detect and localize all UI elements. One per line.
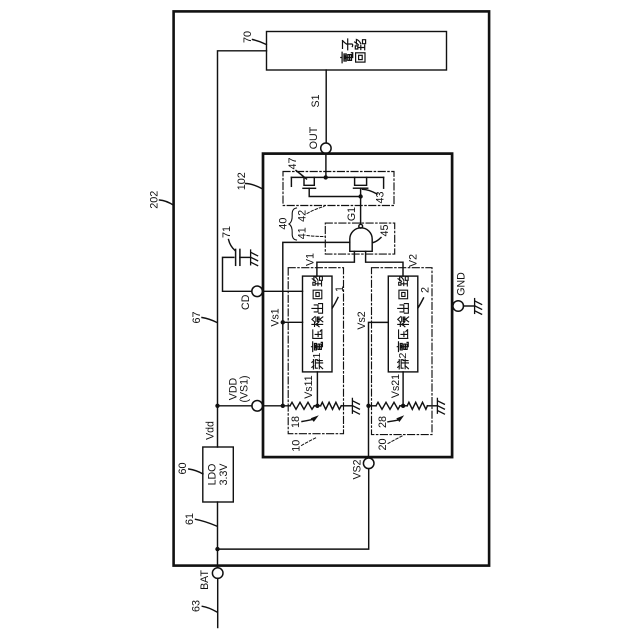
node on rail 67 at VDD	[215, 404, 219, 408]
wire: divider 2 to ground	[427, 405, 437, 407]
svg-text:45: 45	[379, 224, 391, 236]
wire S1: box70 to OUT pin	[325, 70, 327, 143]
pin BAT circle	[212, 568, 223, 579]
pin VDD circle	[252, 401, 263, 412]
pin OUT circle	[321, 143, 331, 153]
node: divider1 left	[281, 404, 285, 408]
label 102	[236, 172, 262, 190]
svg-text:V2: V2	[408, 254, 420, 267]
ground (divider 1)	[352, 398, 359, 414]
node: BAT branch	[215, 547, 219, 551]
wire: between resistors	[400, 405, 407, 407]
node Vs11 tap	[315, 404, 319, 408]
label 電子回路 in box 70	[341, 39, 366, 63]
svg-text:OUT: OUT	[308, 126, 320, 149]
label VDD (VS1)	[228, 375, 251, 402]
pin GND circle	[453, 301, 464, 312]
wire: CD pin into detection circuit 1	[262, 290, 302, 292]
transistor 47	[291, 177, 360, 196]
resistor divider 18 upper	[290, 402, 314, 409]
wire: transistor common rail	[291, 176, 383, 178]
label 61	[184, 513, 217, 526]
wire: CD branch to NAND side input	[283, 242, 350, 405]
dash-dot box 42 (output transistor pair)	[283, 172, 394, 206]
label 71	[221, 226, 235, 251]
ground (divider 2)	[437, 398, 444, 414]
svg-text:BAT: BAT	[199, 570, 211, 590]
pin VS2 circle	[363, 458, 374, 469]
svg-text:LDO: LDO	[207, 464, 219, 486]
label 10	[291, 437, 318, 451]
label 2	[418, 287, 432, 308]
wire: GND pin to ground	[464, 305, 475, 307]
wire 63: battery lead	[217, 578, 219, 627]
wire: Vs21 tap to box 2	[402, 372, 404, 406]
pin CD circle	[252, 286, 263, 297]
wire: Vs1 to box 1	[283, 321, 303, 323]
svg-text:V1: V1	[305, 253, 317, 266]
box 1: first voltage detection circuit	[303, 276, 333, 372]
wire: VDD pin to divider 1	[263, 405, 291, 407]
wire 67: box70 to LDO rail	[218, 51, 267, 447]
svg-text:67: 67	[191, 311, 203, 323]
capacitor 71	[236, 249, 240, 265]
label 42	[297, 207, 324, 222]
svg-text:202: 202	[149, 191, 161, 209]
svg-text:18: 18	[290, 416, 302, 428]
label 45	[373, 224, 391, 242]
label 41	[297, 227, 325, 239]
svg-text:40: 40	[278, 218, 290, 230]
svg-text:(VS1): (VS1)	[238, 375, 250, 402]
svg-text:S1: S1	[310, 94, 322, 107]
wire: VS2 pin down to BAT rail	[218, 469, 369, 549]
svg-text:Vs21: Vs21	[390, 374, 402, 398]
svg-text:Vs1: Vs1	[270, 308, 282, 326]
ground (capacitor 71)	[251, 250, 258, 266]
label 28 with arrow	[377, 415, 404, 428]
box 70 electronic circuit	[267, 32, 447, 71]
box 2: second voltage detection circuit	[388, 276, 418, 372]
IC box 102	[263, 154, 452, 458]
node: gate junction G1	[358, 194, 362, 198]
svg-text:102: 102	[236, 172, 248, 190]
wire: CD pin to capacitor 71	[223, 257, 252, 291]
svg-text:2: 2	[420, 287, 432, 293]
svg-text:2: 2	[397, 353, 409, 359]
wire 61: LDO to BAT pin	[217, 502, 219, 568]
svg-text:10: 10	[291, 440, 303, 452]
svg-text:GND: GND	[456, 272, 468, 296]
wire: to divider 2	[369, 405, 377, 407]
wire: Vs2 from riser to box 2	[369, 322, 389, 458]
label 47	[287, 157, 307, 179]
dash-dot box 20 (second divider block)	[372, 268, 433, 435]
label 18 with arrow	[290, 415, 319, 428]
brace 40	[289, 208, 297, 240]
NAND gate 45 output bubble	[359, 224, 363, 228]
label LDO 3.3V	[207, 463, 231, 486]
node Vs21 tap	[401, 404, 405, 408]
node Vs1	[281, 320, 285, 324]
svg-text:41: 41	[297, 227, 309, 239]
label 67	[191, 311, 217, 323]
label 43	[363, 189, 387, 203]
svg-text:3.3V: 3.3V	[218, 463, 230, 486]
transistor 43	[354, 177, 384, 196]
svg-text:60: 60	[177, 462, 189, 474]
svg-text:Vdd: Vdd	[205, 421, 217, 440]
dash-dot box 10 (first divider block)	[288, 268, 343, 434]
label 1	[332, 286, 346, 308]
label 202	[149, 191, 174, 209]
svg-text:Vs11: Vs11	[303, 375, 315, 398]
svg-text:CD: CD	[240, 294, 252, 310]
wire: NAND input V1	[317, 251, 355, 276]
node: divider2 left	[366, 404, 370, 408]
label 63	[191, 600, 217, 612]
resistor divider 28 upper	[376, 402, 400, 409]
wire OUT pin into chip	[325, 153, 327, 177]
svg-text:63: 63	[191, 600, 203, 612]
svg-text:71: 71	[221, 226, 233, 238]
label 第2電圧検出回路	[397, 276, 409, 369]
node: drain rail junction	[324, 175, 328, 179]
wire: NAND input V2	[366, 251, 403, 276]
dash-dot box 41 (NAND logic)	[325, 223, 394, 254]
svg-text:42: 42	[297, 210, 309, 222]
wire: Vs11 tap to box 1	[316, 372, 318, 406]
wire: divider 1 to ground	[341, 405, 352, 407]
NAND gate 45 body	[350, 228, 372, 252]
svg-text:G1: G1	[346, 207, 358, 221]
svg-text:61: 61	[184, 513, 196, 525]
svg-text:20: 20	[377, 438, 389, 450]
svg-text:Vs2: Vs2	[356, 311, 368, 329]
LDO regulator box 60	[203, 447, 234, 502]
svg-text:28: 28	[377, 416, 389, 428]
svg-text:70: 70	[242, 31, 254, 43]
resistor divider 18 lower	[321, 402, 342, 409]
svg-text:47: 47	[287, 157, 299, 169]
svg-text:1: 1	[334, 286, 346, 292]
label 第1電圧検出回路	[311, 276, 323, 369]
svg-text:1: 1	[311, 353, 323, 359]
svg-text:VS2: VS2	[352, 459, 364, 479]
outer system box 202	[174, 11, 490, 565]
wire: between resistors	[314, 405, 320, 407]
label 70	[242, 31, 266, 45]
resistor divider 28 lower	[407, 402, 427, 409]
ground (GND pin)	[475, 299, 482, 315]
label 20	[377, 436, 403, 451]
label 60	[177, 462, 203, 474]
wire: gate junction to NAND output bubble	[360, 197, 362, 225]
wire: capacitor to ground	[240, 256, 251, 258]
wire: rail to VDD pin	[218, 405, 252, 407]
